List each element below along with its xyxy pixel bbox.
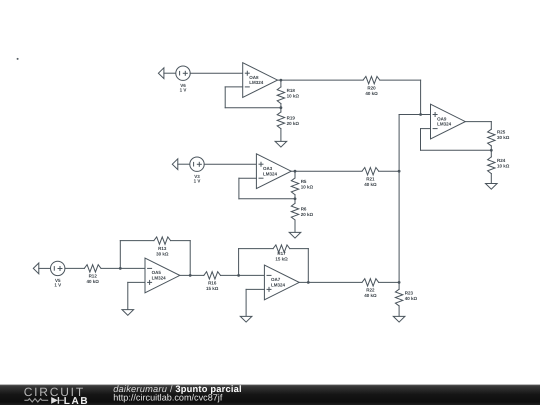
svg-text:R25: R25	[497, 130, 506, 135]
voltage source V6	[176, 66, 190, 80]
logo diode	[51, 397, 64, 404]
node OA9 + input junction	[419, 113, 422, 116]
label R16 15 k	[206, 281, 219, 292]
op-amp OA8	[243, 63, 278, 98]
input terminal arrow (V5 negative)	[33, 263, 39, 274]
logo word CIRCUIT	[24, 385, 85, 399]
svg-text:R20: R20	[367, 85, 376, 90]
wire feedback down to OA5 output	[189, 241, 191, 276]
wire OA5 + input left	[128, 281, 145, 283]
wire R21 to summing node line	[379, 170, 399, 172]
svg-text:30 kΩ: 30 kΩ	[497, 135, 510, 140]
resistor R19	[277, 108, 284, 142]
svg-text:OA8: OA8	[249, 75, 259, 80]
label OA9 LM324	[437, 116, 452, 126]
node OA7 input junction	[237, 274, 240, 277]
wire summing node to OA9 + input	[399, 114, 430, 116]
resistor R13	[154, 237, 171, 244]
input terminal arrow (V3 negative)	[172, 159, 178, 170]
label R23 40 k	[405, 290, 418, 301]
ground below R6	[289, 232, 301, 238]
svg-text:R19: R19	[287, 116, 296, 121]
wire V6 to OA8 + input	[190, 72, 243, 74]
label R13 30 k	[156, 246, 169, 257]
label R12 40 k	[87, 274, 100, 285]
wire + input down to ground	[245, 289, 247, 316]
node R21 junction	[398, 170, 401, 173]
wire feedback top left segment	[239, 248, 274, 250]
resistor R12	[84, 265, 101, 272]
svg-text:LM324: LM324	[437, 122, 452, 127]
svg-text:LM324: LM324	[152, 276, 167, 281]
label R22 40 k	[364, 288, 377, 299]
resistor R24	[488, 150, 495, 183]
svg-text:OA5: OA5	[152, 270, 162, 275]
svg-text:OA9: OA9	[437, 116, 447, 121]
wire OA9 output	[465, 121, 491, 123]
svg-text:R5: R5	[301, 179, 307, 184]
ground below R24	[486, 184, 498, 190]
wire feedback vertical	[224, 87, 226, 108]
wire OA8 inverting feedback left	[225, 86, 243, 88]
svg-text:http://circuitlab.com/cvc87jf: http://circuitlab.com/cvc87jf	[113, 393, 223, 403]
svg-text:10 kΩ: 10 kΩ	[287, 94, 300, 99]
svg-text:R22: R22	[366, 288, 375, 293]
node R18/R19 junction	[280, 106, 283, 109]
node OA3 output	[294, 170, 297, 173]
wire arrow to V5	[39, 267, 51, 269]
node OA5 output	[189, 274, 192, 277]
node R5/R6 junction	[294, 197, 297, 200]
resistor R6	[291, 199, 298, 233]
resistor R23	[395, 282, 402, 316]
svg-text:LAB: LAB	[64, 396, 89, 405]
svg-text:40 kΩ: 40 kΩ	[365, 91, 378, 96]
logo word LAB	[64, 396, 89, 405]
label V3 1 V	[194, 174, 201, 184]
stray dot	[17, 58, 19, 60]
wire OA8 output	[278, 79, 364, 81]
svg-text:R18: R18	[287, 88, 296, 93]
op-amp OA3	[256, 154, 291, 189]
wire feedback to R25/R24 node	[421, 149, 492, 151]
wire R22 to summing node	[379, 281, 399, 283]
label R20 40 k	[365, 85, 378, 96]
wire V3 to OA3 + input	[204, 163, 256, 165]
voltage source V3	[190, 157, 204, 171]
svg-text:1 V: 1 V	[180, 87, 187, 92]
wire feedback vertical	[420, 129, 422, 151]
resistor R22	[362, 279, 379, 286]
wire OA9 inverting feedback left	[421, 128, 431, 130]
label R24 10 k	[497, 158, 510, 169]
label R25 30 k	[497, 130, 510, 141]
wire R20 to corner	[380, 79, 421, 81]
ground below R19	[275, 141, 287, 147]
wire V5 to R12	[65, 267, 84, 269]
label R19 20 k	[287, 116, 300, 127]
svg-text:LM324: LM324	[271, 283, 286, 288]
resistor R16	[204, 272, 221, 279]
label R5 10 k	[301, 179, 314, 190]
wire + input down to ground	[127, 282, 129, 309]
svg-text:40 kΩ: 40 kΩ	[364, 293, 377, 298]
node OA5 input junction	[119, 267, 122, 270]
ground OA5 + input	[122, 310, 134, 316]
node OA8 output	[280, 79, 283, 82]
wire feedback top left segment	[120, 240, 154, 242]
credit line 1	[113, 384, 242, 394]
wire feedback vertical	[238, 178, 240, 199]
svg-text:30 kΩ: 30 kΩ	[156, 251, 169, 256]
label OA8 LM324	[249, 75, 264, 85]
label OA3 LM324	[263, 166, 278, 176]
footer bar	[0, 385, 540, 405]
wire corner down to OA9 + node	[420, 80, 422, 114]
wire arrow to V3	[178, 163, 190, 165]
svg-text:OA3: OA3	[263, 166, 273, 171]
node R22/R23 junction	[398, 281, 401, 284]
wire R16 to OA7 - input	[221, 274, 265, 276]
label R6 20 k	[301, 207, 314, 218]
input terminal arrow (V6 negative)	[158, 68, 164, 79]
svg-text:1 V: 1 V	[194, 178, 201, 183]
wire OA3 output	[291, 170, 362, 172]
svg-text:20 kΩ: 20 kΩ	[287, 121, 300, 126]
node OA7 output	[307, 281, 310, 284]
svg-text:1 V: 1 V	[54, 283, 61, 288]
wire feedback bottom to R5/R6 node	[239, 198, 295, 200]
resistor R20	[363, 76, 380, 83]
wire OA7 output	[299, 281, 362, 283]
wire OA3 inverting feedback left	[239, 177, 257, 179]
resistor R18	[277, 80, 284, 108]
resistor R21	[362, 168, 379, 175]
svg-text:R6: R6	[301, 207, 307, 212]
label V6 1 V	[180, 83, 187, 93]
wire arrow to V6	[164, 72, 176, 74]
svg-text:15 kΩ: 15 kΩ	[206, 286, 219, 291]
ground OA7 + input	[240, 316, 252, 322]
svg-text:LM324: LM324	[249, 80, 264, 85]
wire OA5 output	[180, 274, 204, 276]
resistor R17	[273, 245, 290, 252]
label V5 1 V	[54, 278, 61, 288]
resistor R5	[291, 171, 298, 199]
svg-text:40 kΩ: 40 kΩ	[364, 182, 377, 187]
label OA5 LM324	[152, 270, 167, 280]
wire R13 to right corner	[171, 240, 191, 242]
svg-text:LM324: LM324	[263, 171, 278, 176]
svg-text:R13: R13	[158, 246, 167, 251]
wire feedback bottom to R18/R19 node	[225, 107, 281, 109]
credit line 2	[113, 393, 223, 403]
label R17 15 k	[275, 251, 288, 262]
svg-text:R17: R17	[277, 251, 286, 256]
wire summing node vertical line	[398, 115, 400, 283]
svg-text:R16: R16	[208, 281, 217, 286]
op-amp OA5	[145, 258, 180, 293]
logo resistor zigzag	[24, 399, 48, 402]
label R21 40 k	[364, 177, 377, 188]
ground below R23	[393, 316, 405, 322]
svg-text:R21: R21	[366, 177, 375, 182]
svg-text:15 kΩ: 15 kΩ	[275, 257, 288, 262]
op-amp OA7	[264, 265, 299, 300]
svg-text:10 kΩ: 10 kΩ	[497, 164, 510, 169]
label R18 10 k	[287, 88, 300, 99]
svg-text:R12: R12	[89, 274, 98, 279]
svg-text:40 kΩ: 40 kΩ	[87, 279, 100, 284]
svg-text:R23: R23	[405, 290, 414, 295]
op-amp OA9	[431, 104, 466, 139]
svg-text:20 kΩ: 20 kΩ	[301, 212, 314, 217]
wire R17 to right corner	[290, 248, 309, 250]
svg-text:R24: R24	[497, 158, 506, 163]
svg-text:40 kΩ: 40 kΩ	[405, 296, 418, 301]
wire feedback down to OA7 output	[307, 249, 309, 283]
wire R12 to OA5 - input	[101, 267, 145, 269]
node R25/R24 junction	[490, 149, 493, 152]
wire feedback up from OA7 input node	[238, 249, 240, 276]
label OA7 LM324	[271, 277, 286, 287]
svg-text:OA7: OA7	[271, 277, 281, 282]
resistor R25	[488, 129, 495, 150]
svg-text:10 kΩ: 10 kΩ	[301, 185, 314, 190]
wire output corner down	[490, 122, 492, 130]
voltage source V5	[51, 261, 65, 275]
wire OA7 + input left	[246, 288, 264, 290]
wire feedback up from input node	[119, 241, 121, 269]
